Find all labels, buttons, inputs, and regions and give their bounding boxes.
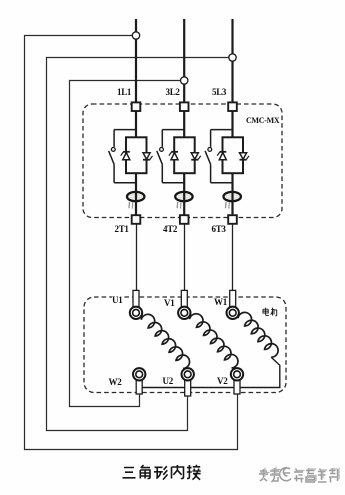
label 5L3	[212, 88, 226, 97]
wire: L1 top feeder to V2 (outer loop)	[25, 36, 238, 450]
current transformer CT3	[224, 192, 241, 209]
label 6T3	[212, 225, 226, 234]
label 4T2	[163, 225, 177, 234]
wire: 2T1 to motor U1	[136, 224, 138, 291]
motor terminal V1	[178, 290, 190, 319]
label V1	[164, 299, 174, 308]
wire: phase 3 main vertical	[231, 19, 233, 216]
label W2	[109, 378, 122, 387]
current transformer CT1	[127, 192, 144, 209]
current transformer CT2	[175, 192, 192, 209]
motor terminal W2	[133, 368, 145, 394]
node: L2 tap junction	[181, 77, 188, 84]
label 3L2	[166, 88, 180, 97]
terminal 2T1 (output)	[132, 215, 141, 224]
bypass contact K1	[109, 130, 136, 183]
wire: 6T3 to motor W1	[232, 224, 234, 291]
label 1L1	[117, 88, 131, 97]
node: L3 tap junction	[229, 54, 236, 61]
label U1	[112, 296, 122, 305]
thyristor pair V2 (anti-parallel SCRs)	[169, 137, 201, 173]
label U2	[163, 377, 173, 386]
motor terminal V2	[231, 368, 243, 394]
winding U1-U2	[141, 314, 189, 368]
soft starter enclosure CMC-MX (dashed box)	[83, 104, 282, 218]
thyristor pair V3 (anti-parallel SCRs)	[217, 137, 249, 173]
motor terminal U2	[182, 368, 194, 396]
watermark 头条@橙色培训 (gray)	[258, 465, 342, 487]
terminal 6T3 (output)	[228, 215, 237, 224]
terminal 1L1 (input)	[132, 102, 141, 111]
label W1	[214, 298, 227, 307]
node: L1 tap junction	[132, 32, 139, 39]
wire: phase 1 main vertical	[135, 19, 137, 216]
winding W1-W2	[143, 312, 280, 387]
label 2T1	[115, 225, 129, 234]
label 电机 (motor) hand-drawn glyphs	[262, 307, 278, 317]
bypass contact K3	[205, 130, 232, 183]
wire: L2 top feeder to W2 (inner loop)	[70, 81, 185, 407]
label CMC-MX	[246, 116, 279, 125]
wire: L3 top feeder to U2 (middle loop)	[47, 58, 233, 431]
terminal 3L2 (input)	[180, 102, 189, 111]
thyristor pair V1 (anti-parallel SCRs)	[121, 137, 153, 173]
terminal 5L3 (input)	[228, 102, 237, 111]
motor terminal W1	[227, 290, 239, 319]
motor terminal U1	[130, 290, 142, 319]
wire: phase 2 main vertical	[183, 19, 185, 216]
caption 三角形内接 (delta inside connection) hand-drawn glyphs	[120, 464, 204, 482]
motor enclosure (dashed box)	[84, 297, 286, 393]
terminal 4T2 (output)	[180, 215, 189, 224]
wire: 4T2 to motor V1	[184, 224, 186, 291]
winding V1-V2	[190, 314, 238, 368]
label V2	[217, 377, 227, 386]
bypass contact K2	[157, 130, 184, 183]
